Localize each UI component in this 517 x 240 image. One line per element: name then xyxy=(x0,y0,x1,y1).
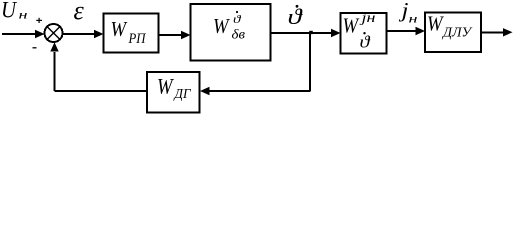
svg-text:j: j xyxy=(398,0,409,22)
plus sign xyxy=(36,18,42,23)
block W^thetadot_deltav (plant) xyxy=(191,4,271,61)
minus sign xyxy=(33,47,37,49)
svg-text:W: W xyxy=(111,17,128,41)
svg-text:н: н xyxy=(409,12,418,26)
wire plant to W_jn xyxy=(271,29,341,37)
block W_DG (rate gyro) xyxy=(147,72,200,113)
wire output xyxy=(481,28,513,36)
svg-text:ДЛУ: ДЛУ xyxy=(441,26,473,41)
svg-text:н: н xyxy=(19,8,28,22)
wire feedback left horizontal xyxy=(55,90,148,92)
svg-text:jн: jн xyxy=(359,10,376,25)
wire W_RP to plant xyxy=(159,31,191,39)
node j_н label xyxy=(398,0,418,26)
junction node dot xyxy=(309,31,313,34)
svg-text:W: W xyxy=(427,12,444,36)
svg-text:ϑ: ϑ xyxy=(288,4,304,29)
wire input xyxy=(2,30,45,38)
svg-text:δв: δв xyxy=(232,27,246,42)
wire summing junction to W_RP xyxy=(63,30,104,38)
node thetadot label xyxy=(288,4,304,29)
wire junction down xyxy=(309,33,311,91)
svg-text:РП: РП xyxy=(128,31,147,47)
svg-text:W: W xyxy=(213,14,230,38)
wire feedback right horizontal xyxy=(200,87,311,95)
svg-text:W: W xyxy=(157,73,174,98)
svg-text:ε: ε xyxy=(74,0,85,25)
svg-text:W: W xyxy=(343,14,360,38)
svg-text:ДГ: ДГ xyxy=(173,86,192,101)
block W_DLU (linear accelerometer) xyxy=(425,12,481,52)
svg-text:U: U xyxy=(1,0,17,23)
block W^jn_thetadot (accelerometer transfer) xyxy=(341,10,387,54)
wire W_jn to W_DLU xyxy=(387,27,426,35)
input label U_н xyxy=(1,0,28,23)
block W_RP (controller) xyxy=(104,14,159,53)
wire feedback up to summing junction xyxy=(50,42,58,91)
summing junction xyxy=(45,24,63,42)
node epsilon label xyxy=(74,0,85,25)
svg-text:ϑ: ϑ xyxy=(360,33,371,52)
